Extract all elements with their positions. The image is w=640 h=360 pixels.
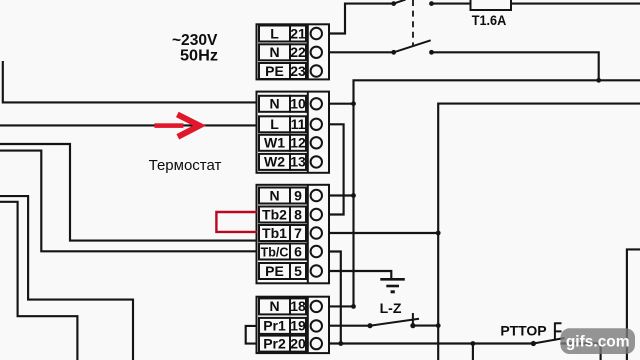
svg-text:W1: W1 xyxy=(264,135,285,151)
svg-text:L: L xyxy=(270,116,279,132)
svg-text:11: 11 xyxy=(291,116,306,132)
wire L21 to switch S1 pole 1 xyxy=(329,4,394,34)
svg-text:Термостат: Термостат xyxy=(149,157,222,174)
earth ground symbol xyxy=(380,279,405,292)
svg-text:23: 23 xyxy=(290,63,306,79)
wire Pr2 to contact PTTOP xyxy=(329,342,533,344)
wire PTTOP output down xyxy=(560,344,600,360)
wire L after fuse to right edge xyxy=(432,3,640,5)
terminal X3 texts xyxy=(261,187,302,278)
jumper Pr1-Pr2 xyxy=(246,326,257,344)
svg-text:Tb2: Tb2 xyxy=(262,206,287,222)
terminal X2 texts xyxy=(264,96,306,170)
svg-text:РТТОР: РТТОР xyxy=(500,323,546,339)
switch S1 mechanical link (dashed) xyxy=(412,0,414,47)
wire thermostat N from left xyxy=(3,61,257,102)
switch S1 pole 1 lever xyxy=(394,0,406,4)
svg-text:5: 5 xyxy=(294,263,302,279)
switch S1 pole 2 lever xyxy=(394,40,431,52)
watermark gifs.com xyxy=(561,328,636,354)
wire N10 stub to N bus xyxy=(329,103,354,105)
wire N9 stub to N bus xyxy=(329,194,354,196)
contact L-Z fixed pin xyxy=(412,313,414,326)
svg-text:12: 12 xyxy=(290,135,306,151)
svg-text:N: N xyxy=(269,44,279,60)
svg-text:20: 20 xyxy=(290,335,306,351)
wire N22 to switch S1 pole 2 xyxy=(329,51,394,53)
wire branch down from Pr2 wire xyxy=(472,344,474,360)
svg-text:W2: W2 xyxy=(264,154,285,170)
svg-text:9: 9 xyxy=(294,187,302,203)
svg-text:L-Z: L-Z xyxy=(380,300,402,316)
svg-text:Tb/C: Tb/C xyxy=(261,245,289,259)
wire external to Tb1 from left xyxy=(0,144,257,241)
component box lower right xyxy=(627,249,640,360)
svg-text:PE: PE xyxy=(265,263,284,279)
contact PTTOP actuator xyxy=(555,322,562,340)
terminal block X3 (N9 Tb2 Tb1 Tb/C PE5) xyxy=(257,185,330,283)
red jumper Tb2-Tb1 xyxy=(216,212,256,232)
wire N bus vertical xyxy=(354,80,599,306)
svg-text:7: 7 xyxy=(294,225,302,241)
svg-text:6: 6 xyxy=(294,243,302,259)
svg-text:22: 22 xyxy=(290,44,306,60)
svg-text:~230V: ~230V xyxy=(172,32,218,49)
red arrow marker xyxy=(154,114,199,136)
svg-text:13: 13 xyxy=(290,154,306,170)
svg-text:Pr2: Pr2 xyxy=(263,335,286,351)
wire N18 stub to N bus end xyxy=(329,305,354,307)
wire external to Tb/C from left xyxy=(0,151,257,252)
svg-text:18: 18 xyxy=(290,298,306,314)
svg-text:21: 21 xyxy=(290,25,306,41)
terminal block X4 (N18 Pr1 19 Pr2 20) xyxy=(257,297,330,353)
svg-text:N: N xyxy=(269,298,279,314)
svg-text:8: 8 xyxy=(294,206,302,222)
svg-text:N: N xyxy=(269,187,279,203)
svg-text:T1.6A: T1.6A xyxy=(472,12,507,28)
wire lower-left staircase outer xyxy=(0,196,133,360)
wire lower-left staircase inner xyxy=(0,202,77,360)
wire PE5 to earth xyxy=(329,271,391,279)
svg-text:PE: PE xyxy=(265,63,284,79)
terminal block X1 (L21 N22 PE23) xyxy=(257,24,330,79)
svg-text:gifs.com: gifs.com xyxy=(566,334,630,351)
svg-text:19: 19 xyxy=(290,318,306,334)
wire Tb/C down to Pr2 wire xyxy=(329,252,341,344)
wire link L11 to Tb2 xyxy=(329,124,344,214)
svg-text:Pr1: Pr1 xyxy=(263,318,286,334)
wire N feed to right edge xyxy=(599,79,640,81)
svg-text:50Hz: 50Hz xyxy=(180,48,218,65)
wire L-Z output to vertical xyxy=(413,325,438,327)
terminal X1 texts xyxy=(265,25,306,79)
svg-text:L: L xyxy=(270,25,279,41)
svg-text:10: 10 xyxy=(290,96,306,112)
wire Tb1 to node K1 xyxy=(329,232,438,234)
wire vertical from box corner through L-Z output xyxy=(438,104,640,360)
wire Pr1 to contact L-Z xyxy=(329,325,370,327)
terminal block X2 (N10 L11 W1 12 W2 13) xyxy=(257,92,330,173)
terminal X4 texts xyxy=(263,298,306,351)
contact L-Z lever xyxy=(370,319,419,326)
svg-text:N: N xyxy=(269,96,279,112)
svg-text:Tb1: Tb1 xyxy=(262,225,287,241)
wire thermostat L from left xyxy=(0,124,257,126)
fuse F1 body xyxy=(471,0,512,10)
contact PTTOP lever xyxy=(533,338,564,344)
wire N after switch, down and along N bus corner xyxy=(432,52,599,80)
